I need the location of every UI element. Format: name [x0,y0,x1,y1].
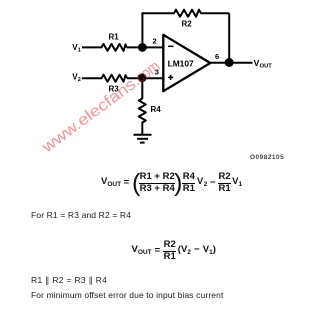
svg-text:LM107: LM107 [168,58,194,68]
svg-text:OUT: OUT [260,63,273,69]
svg-text:R1: R1 [109,32,120,41]
svg-text:R2: R2 [182,19,193,28]
svg-text:R4: R4 [151,105,162,114]
svg-text:www.elecfans: www.elecfans [38,76,139,157]
svg-text:1: 1 [78,48,81,54]
svg-text:2: 2 [153,37,157,46]
svg-text:2: 2 [78,77,81,83]
svg-text:6: 6 [215,52,219,61]
